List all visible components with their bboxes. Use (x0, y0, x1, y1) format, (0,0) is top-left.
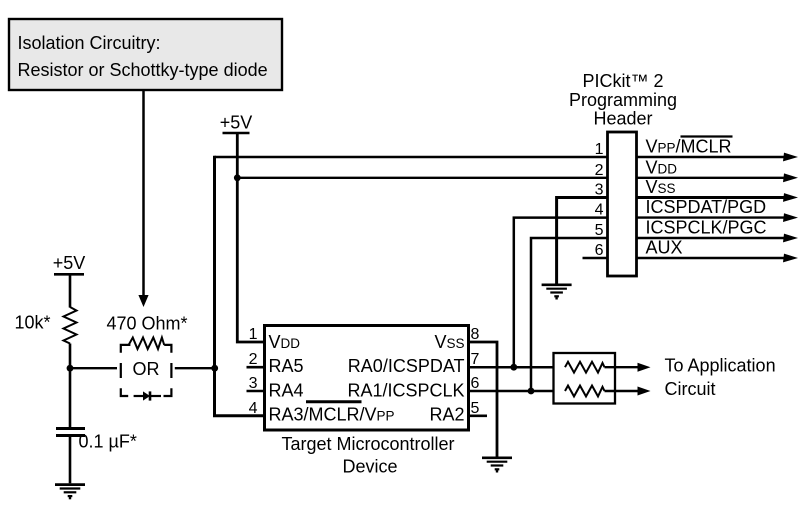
svg-text:Device: Device (342, 457, 397, 477)
wire VPP/MCLR: header pin 1 to MCU pin 4 (215, 156, 609, 416)
wire/arrow header pin 3 VSS output (637, 193, 799, 202)
svg-text:1: 1 (249, 326, 258, 343)
svg-text:7: 7 (471, 351, 480, 368)
wire MCU pin 7 RA0/ICSPDAT to resistor pack (469, 366, 566, 369)
svg-text:ICSPCLK/PGC: ICSPCLK/PGC (646, 218, 767, 238)
power +5V (top) (220, 113, 253, 134)
svg-text:+5V: +5V (53, 253, 86, 273)
svg-text:AUX: AUX (646, 238, 683, 258)
svg-text:RA4: RA4 (269, 380, 304, 400)
capacitor C1 (56, 429, 85, 436)
wire VSS: header pin 3 to ground (557, 198, 608, 284)
resistor R4 (ICSPCLK series) (565, 386, 605, 397)
wire/arrow to application (ICSPCLK) (605, 387, 651, 396)
node: ICSPCLK junction (528, 388, 535, 395)
wire +5V rail to MCU pin 1 VDD (237, 133, 266, 342)
svg-text:RA2: RA2 (429, 405, 464, 425)
label pin RA3/MCLR/VPP with overline (269, 402, 395, 425)
svg-text:Target Microcontroller: Target Microcontroller (281, 434, 454, 454)
pin 2 stub (RA5) (247, 366, 265, 369)
node: R1/C1/isolation junction (67, 365, 74, 372)
resistor R2 470 Ohm (top edge of dashed box) (129, 338, 165, 350)
wire MCU pin 8 VSS to ground (469, 342, 498, 457)
svg-text:2: 2 (249, 351, 258, 368)
header J1: PICkit 2 programming header box (608, 132, 637, 276)
wire/arrow to application (ICSPDAT) (605, 363, 651, 372)
wire/arrow header pin 2 VDD output (637, 173, 799, 182)
isolation network dashed box (121, 345, 172, 396)
wire +5V to resistor R1 (69, 274, 72, 307)
wire ICSPCLK: header pin 5 to MCU pin 6 (531, 238, 608, 391)
wire/arrow header pin 5 ICSPCLK/PGC output (637, 234, 799, 243)
svg-text:Circuit: Circuit (665, 379, 716, 399)
svg-text:470 Ohm*: 470 Ohm* (107, 314, 188, 334)
wire ICSPDAT: header pin 4 to MCU pin 7 (514, 218, 608, 368)
svg-text:8: 8 (471, 326, 480, 343)
svg-text:3: 3 (595, 182, 604, 199)
wire/arrow header pin 1 VPP/MCLR output (637, 153, 799, 162)
wire AUX stub (583, 257, 609, 259)
wire node to isolation network (70, 367, 117, 369)
svg-text:4: 4 (595, 202, 604, 219)
ground (MCU VSS) (482, 458, 512, 473)
svg-text:Isolation Circuitry:: Isolation Circuitry: (18, 33, 161, 53)
svg-text:6: 6 (595, 242, 604, 259)
label: PICkit 2 Programming Header title (569, 71, 677, 129)
wire R1 to capacitor C1 (69, 344, 72, 428)
wire isolation output to MCLR net (175, 367, 215, 369)
label: Target Microcontroller Device caption (281, 434, 454, 477)
svg-text:+5V: +5V (220, 113, 253, 133)
svg-text:Programming: Programming (569, 90, 677, 110)
svg-text:RA0/ICSPDAT: RA0/ICSPDAT (348, 356, 465, 376)
svg-text:RA5: RA5 (269, 356, 304, 376)
svg-text:VPP/MCLR: VPP/MCLR (646, 137, 732, 157)
svg-text:Header: Header (593, 109, 652, 129)
ground (left branch) (55, 485, 85, 500)
wire VDD to header pin 2 (237, 177, 608, 179)
svg-text:3: 3 (249, 375, 258, 392)
pin 3 stub (RA4) (247, 390, 265, 393)
arrow from note box to isolation network (138, 90, 148, 307)
svg-text:6: 6 (471, 375, 480, 392)
diode D1 schottky (bottom edge of dashed box) (134, 391, 161, 400)
svg-text:RA3/MCLR/VPP: RA3/MCLR/VPP (269, 405, 395, 425)
node: +5V / VDD tee (234, 174, 241, 181)
svg-text:VDD: VDD (646, 157, 678, 177)
svg-text:PICkit™ 2: PICkit™ 2 (582, 71, 663, 91)
svg-text:ICSPDAT/PGD: ICSPDAT/PGD (646, 197, 767, 217)
wire C1 to ground (69, 436, 72, 484)
svg-text:5: 5 (471, 400, 480, 417)
node: MCLR net / isolation output junction (211, 365, 218, 372)
svg-text:0.1 µF*: 0.1 µF* (79, 432, 137, 452)
wire/arrow header pin 6 AUX output (637, 254, 799, 263)
svg-text:4: 4 (249, 400, 258, 417)
label VPP/MCLR with overline (646, 137, 733, 157)
wire MCU pin 6 RA1/ICSPCLK to resistor pack (469, 390, 566, 393)
ground (header VSS) (542, 285, 572, 300)
svg-text:Resistor or Schottky-type diod: Resistor or Schottky-type diode (18, 60, 268, 80)
svg-text:10k*: 10k* (14, 313, 50, 333)
resistor R1 10k (64, 307, 77, 344)
svg-text:RA1/ICSPCLK: RA1/ICSPCLK (347, 380, 464, 400)
svg-text:VSS: VSS (646, 177, 676, 197)
wire/arrow header pin 4 ICSPDAT/PGD output (637, 213, 799, 222)
pin 5 stub (RA2) (469, 414, 488, 417)
node: ICSPDAT junction (510, 364, 517, 371)
power +5V (left) (53, 253, 86, 274)
resistor R3 (ICSPDAT series) (565, 362, 605, 373)
svg-text:5: 5 (595, 222, 604, 239)
IC U1: target microcontroller box (265, 326, 469, 431)
svg-text:1: 1 (595, 141, 604, 158)
svg-text:2: 2 (595, 162, 604, 179)
note box: Isolation Circuitry (9, 19, 282, 90)
svg-text:OR: OR (133, 359, 160, 379)
resistor pack box (554, 353, 616, 404)
svg-text:To Application: To Application (665, 355, 776, 375)
